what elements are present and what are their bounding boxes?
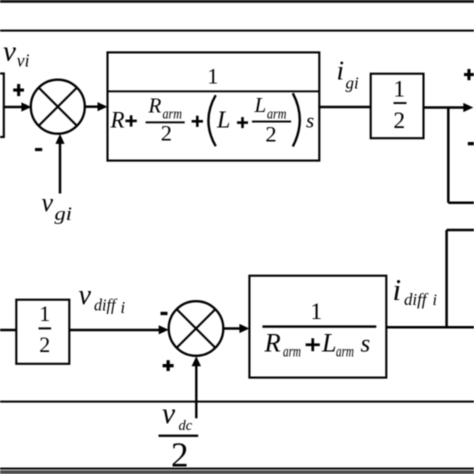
G1 left paren: [208, 95, 215, 146]
svg-text:1: 1: [310, 299, 322, 325]
svg-text:v: v: [3, 35, 16, 67]
svg-text:2: 2: [393, 108, 405, 134]
svg-text:s: s: [361, 331, 371, 358]
G2 denominator: [264, 328, 371, 361]
transfer block G2: [249, 276, 386, 378]
gain block H1 (1/2): [371, 74, 424, 139]
arrow v_gi into S1: [55, 134, 64, 194]
gain block H2 (1/2): [16, 300, 69, 364]
G1 fraction bar: [108, 90, 320, 92]
svg-text:R: R: [148, 94, 162, 118]
G1 plus 3: [237, 117, 248, 128]
node i_gi label: [337, 56, 360, 93]
svg-text:gi: gi: [55, 204, 73, 225]
G2 fraction bar: [262, 325, 376, 327]
minus sign at S1: [35, 148, 42, 151]
bottom border bar: [0, 470, 474, 474]
bottom frame line: [0, 468, 474, 470]
svg-text:L: L: [216, 107, 230, 133]
G1 fraction Larm/2: [252, 93, 291, 147]
G1 fraction Rarm/2: [146, 94, 185, 146]
svg-text:1: 1: [39, 301, 50, 326]
wire from right edge down to i_diff line: [447, 230, 474, 327]
svg-text:gi: gi: [346, 74, 360, 93]
wire arrow H1 to right edge: [424, 103, 474, 112]
svg-text:vi: vi: [17, 51, 30, 71]
svg-text:arm: arm: [267, 107, 287, 123]
G1 plus 1: [125, 115, 136, 126]
node v_dc/2 label: [159, 398, 199, 474]
svg-text:arm: arm: [336, 344, 354, 361]
transfer block G1: [108, 52, 320, 160]
wire G1 to H1: [319, 106, 370, 109]
node v_vi label: [3, 35, 30, 70]
svg-text:s: s: [306, 108, 314, 132]
svg-text:2: 2: [161, 121, 172, 146]
svg-text:R: R: [110, 107, 125, 132]
svg-text:i: i: [393, 272, 402, 307]
node v_diff i label: [79, 280, 126, 317]
plus sign at right edge: [464, 69, 474, 80]
svg-text:1: 1: [393, 77, 405, 103]
top border bar: [0, 0, 474, 3]
svg-text:dc: dc: [179, 418, 193, 434]
plus sign at S1: [13, 84, 24, 96]
svg-text:1: 1: [207, 64, 218, 89]
svg-text:L: L: [254, 93, 267, 117]
svg-text:v: v: [42, 188, 54, 217]
minus sign at S2: [161, 312, 168, 315]
svg-text:i: i: [433, 292, 437, 309]
node i_diff i label: [393, 272, 437, 309]
lower frame line: [0, 401, 474, 403]
svg-text:R: R: [264, 328, 281, 358]
svg-text:diff: diff: [94, 296, 118, 315]
wire arrow S2 to G2: [223, 324, 249, 333]
svg-text:arm: arm: [283, 344, 301, 361]
top frame line: [0, 30, 474, 32]
wire arrow S1 to G1: [85, 102, 108, 111]
svg-text:2: 2: [265, 122, 276, 147]
summing junction S1: [31, 80, 85, 134]
input block (cut off at left edge): [0, 74, 4, 138]
wire arrow into summer S1: [4, 102, 32, 111]
minus sign at right edge: [468, 142, 474, 145]
arrow v_dc/2 into S2: [192, 356, 201, 418]
G1 plus 2: [192, 116, 203, 127]
wire arrow H2 to summer S2: [69, 325, 168, 334]
branch wire down from i_gi/2 line: [448, 108, 474, 203]
input wire at left edge to H2: [0, 329, 16, 332]
wire i_diff to right edge: [386, 326, 474, 329]
svg-text:diff: diff: [404, 290, 429, 309]
plus sign at S2: [163, 360, 174, 371]
node v_gi label: [42, 188, 73, 225]
svg-text:2: 2: [39, 332, 50, 357]
svg-text:v: v: [79, 280, 92, 311]
svg-text:i: i: [121, 298, 126, 317]
svg-text:L: L: [321, 329, 336, 358]
summing junction S2: [169, 301, 224, 356]
svg-text:i: i: [337, 56, 345, 86]
G1 right paren: [293, 93, 300, 146]
